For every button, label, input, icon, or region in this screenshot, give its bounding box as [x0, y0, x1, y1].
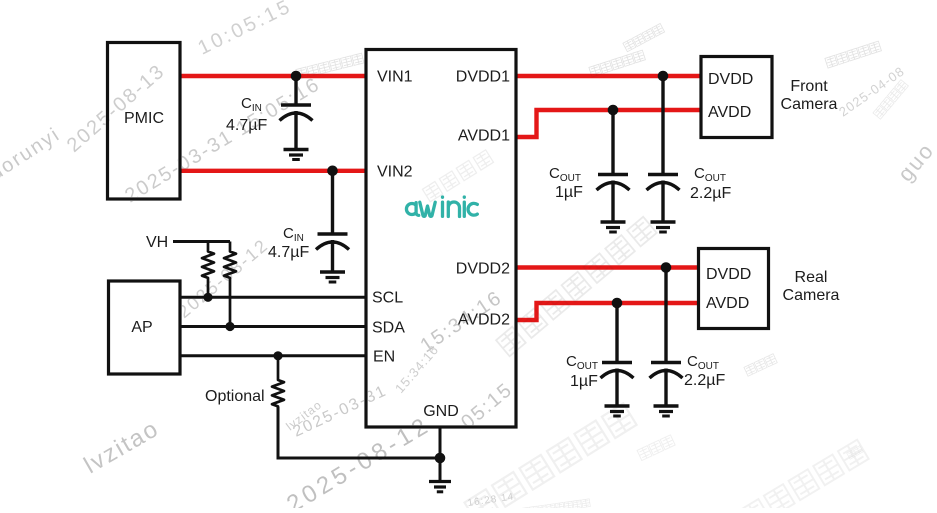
wire GND pin	[439, 427, 442, 481]
IC U1 (awinic regulator)	[366, 50, 516, 428]
svg-text:1µF: 1µF	[570, 373, 598, 390]
wire VIN1 (red)	[181, 74, 366, 78]
svg-text:CIN: CIN	[283, 225, 304, 244]
watermark cjk strings	[296, 23, 909, 513]
capacitor C_OUT3 1uF (rear)	[601, 303, 634, 416]
wire SDA	[180, 325, 366, 328]
capacitor C_OUT2 2.2uF (front)	[647, 76, 680, 232]
junction node SCL/R1	[203, 293, 212, 302]
svg-text:AVDD1: AVDD1	[458, 128, 510, 145]
wire AVDD2 (red)	[516, 303, 698, 320]
svg-text:SDA: SDA	[372, 320, 405, 337]
svg-text:DVDD: DVDD	[706, 266, 751, 283]
capacitor C_IN1 4.7uF	[280, 76, 313, 160]
svg-text:guorunyi: guorunyi	[0, 123, 64, 192]
svg-text:VH: VH	[146, 234, 168, 251]
svg-text:PMIC: PMIC	[124, 110, 164, 127]
junction node SDA/R2	[225, 322, 234, 331]
svg-text:DVDD1: DVDD1	[456, 69, 510, 86]
svg-text:Camera: Camera	[781, 96, 838, 113]
svg-text:Front: Front	[790, 78, 828, 95]
capacitor C_IN2 4.7uF	[316, 171, 349, 282]
svg-text:GND: GND	[423, 403, 459, 420]
resistor R2 (VH to SDA)	[224, 242, 236, 327]
svg-text:AP: AP	[131, 319, 152, 336]
capacitor C_OUT1 1uF (front)	[597, 110, 630, 232]
svg-text:EN: EN	[373, 349, 395, 366]
svg-text:15:34:16: 15:34:16	[392, 342, 442, 396]
svg-text:COUT: COUT	[687, 353, 719, 372]
PMIC box	[108, 43, 181, 200]
svg-text:guo: guo	[893, 137, 937, 186]
svg-text:COUT: COUT	[549, 165, 581, 184]
svg-text:2.2µF: 2.2µF	[684, 372, 725, 389]
svg-text:VIN2: VIN2	[377, 164, 413, 181]
resistor R1 (VH to SCL)	[202, 242, 214, 298]
wire SCL	[180, 296, 366, 299]
svg-text:4.7µF: 4.7µF	[268, 244, 309, 261]
svg-text:1µF: 1µF	[555, 184, 583, 201]
svg-text:AVDD: AVDD	[708, 104, 751, 121]
wire VH lead	[173, 240, 230, 243]
awinic logo	[406, 197, 477, 217]
svg-text:SCL: SCL	[372, 290, 403, 307]
wire DVDD1 (red)	[516, 74, 701, 78]
junction node VIN1/CIN1	[291, 71, 302, 82]
svg-text:Optional: Optional	[205, 388, 265, 405]
Front camera box	[701, 57, 772, 138]
svg-text:2025-04-08: 2025-04-08	[836, 63, 907, 119]
svg-text:10:05:15: 10:05:15	[195, 0, 296, 59]
svg-text:Real: Real	[795, 269, 828, 286]
junction node EN/R3	[273, 351, 282, 360]
junction node AVDD2/COUT3	[612, 298, 623, 309]
svg-text:COUT: COUT	[566, 353, 598, 372]
svg-text:DVDD2: DVDD2	[456, 261, 510, 278]
wire EN pulldown to GND net	[278, 407, 440, 458]
svg-text:lvzitao: lvzitao	[80, 415, 165, 479]
junction node VIN2/CIN2	[327, 166, 338, 177]
junction node GND	[435, 453, 446, 464]
svg-text:Camera: Camera	[783, 287, 840, 304]
svg-text:2025-08-12: 2025-08-12	[174, 235, 273, 322]
svg-text:COUT: COUT	[694, 165, 726, 184]
capacitor C_OUT4 2.2uF (rear)	[650, 268, 683, 417]
wire VIN2 (red)	[181, 169, 366, 173]
wire DVDD2 (red)	[516, 265, 698, 269]
svg-text:2.2µF: 2.2µF	[690, 185, 731, 202]
svg-text:AVDD: AVDD	[706, 295, 749, 312]
ground for GND pin	[429, 482, 451, 492]
wire EN	[180, 354, 366, 357]
junction node DVDD2/COUT4	[661, 262, 672, 273]
resistor R3 Optional (EN pulldown)	[272, 356, 284, 458]
AP box	[109, 281, 181, 374]
svg-text:DVDD: DVDD	[708, 71, 753, 88]
Rear camera box	[699, 249, 769, 329]
svg-text:VIN1: VIN1	[377, 69, 413, 86]
svg-text:2025-03-31 15:05:16: 2025-03-31 15:05:16	[121, 73, 324, 207]
junction node AVDD1/COUT1	[608, 105, 619, 116]
junction node DVDD1/COUT2	[658, 71, 669, 82]
svg-text:2025-08-13: 2025-08-13	[63, 60, 170, 157]
wire AVDD1 (red)	[516, 110, 701, 137]
